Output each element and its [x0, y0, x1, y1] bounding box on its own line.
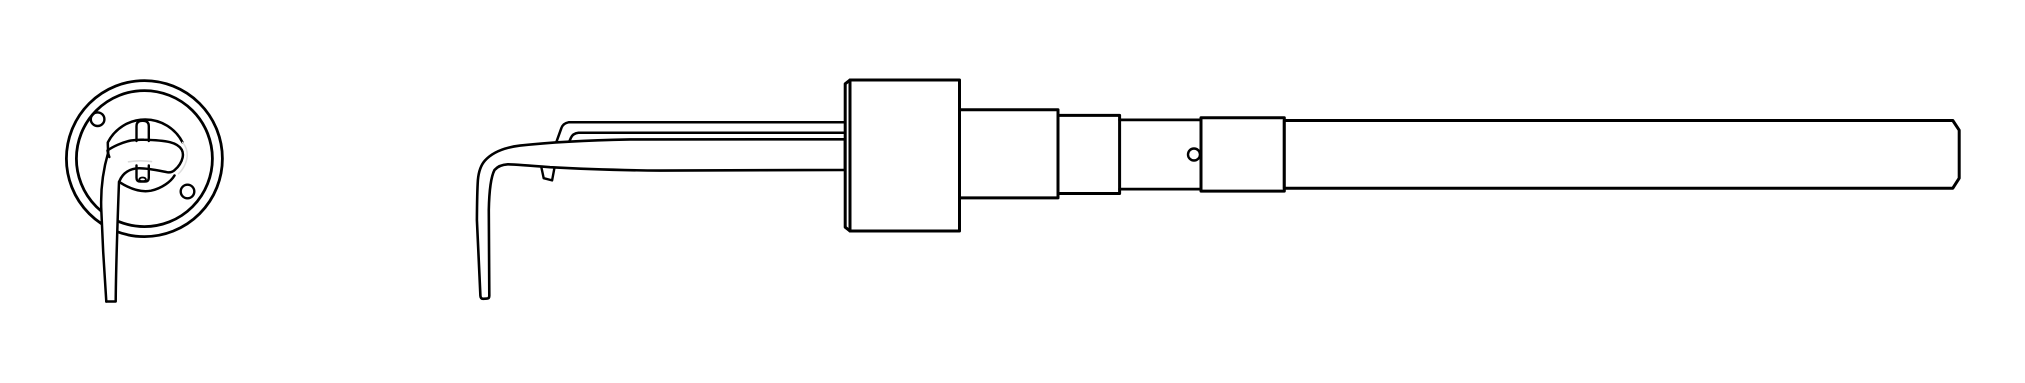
faint inner line on disc: [129, 160, 152, 163]
small tab under sheath: [541, 164, 555, 181]
slot bottom cap: [137, 166, 149, 182]
collar A: [960, 110, 1059, 198]
small hole on tube: [1188, 149, 1200, 161]
inner ring: [76, 91, 212, 227]
disc outline stroke (open, no left closure): [108, 140, 183, 181]
faint face arc right continuation: [178, 142, 187, 173]
inner tube lower line with bend: [567, 133, 845, 147]
curled tube white fill (band + tail, disc as hole): [101, 119, 186, 301]
block C: [1201, 118, 1284, 191]
flange separation line: [849, 80, 852, 231]
outer ring: [66, 81, 222, 237]
collar B: [1058, 115, 1120, 193]
hole upper-left: [91, 112, 105, 126]
sheath with bent tapered tip: [477, 139, 845, 299]
hole lower-right: [181, 185, 195, 199]
inner tube upper line with bend: [555, 122, 845, 145]
slot bottom inner ellipse: [139, 178, 146, 182]
block (ferrule) with left flange: [845, 80, 959, 231]
slot (blade end-on) upper part: [137, 121, 149, 141]
long handle cylinder with chamfered end: [1284, 121, 1959, 189]
tube segment lines: [1120, 120, 1201, 189]
band lower sweep + tail right edge: [106, 176, 174, 302]
band outer outline stroke (tail left + face arc): [101, 120, 182, 302]
